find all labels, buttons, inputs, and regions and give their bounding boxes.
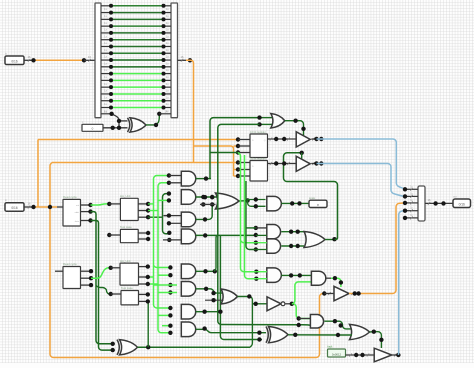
wire B1out2 to v2 [148, 210, 158, 212]
wire IN2 stub [24, 206, 34, 208]
subcircuit HA-Unit B2 [120, 263, 139, 285]
svg-text:Test case: Test case [121, 286, 133, 290]
AND gate AND6 [310, 315, 323, 329]
output pin OUT1 [453, 199, 471, 208]
node comb out [433, 201, 445, 205]
wire reg2 Q out [268, 163, 297, 165]
node C2 in [109, 292, 113, 296]
AND gate AND1 [267, 196, 282, 211]
node A3 inputs [167, 213, 171, 225]
node Gd ins [168, 324, 172, 335]
node reg2 Q [274, 161, 286, 165]
wire A2 out stubs [81, 270, 92, 272]
node A2 inputs [167, 191, 171, 202]
node B1 outs [146, 202, 150, 220]
wire OR3 to AND1 b [248, 200, 266, 206]
wire bright v2 branch a2 [158, 274, 170, 276]
wire C1 out2 [138, 238, 148, 240]
node N1 out [290, 302, 294, 306]
svg-text:16 bit register: 16 bit register [250, 130, 266, 134]
wire pin17 down to XOR [112, 114, 119, 128]
wire down x220 to ORbl2 [220, 235, 262, 339]
wire C1 in stub [109, 234, 120, 236]
wire B2 out3 [139, 283, 148, 285]
wire XOR out [146, 114, 159, 125]
svg-text:fault: fault [328, 345, 333, 349]
wire buf2 out [311, 163, 316, 165]
wire NOT in stub [252, 303, 267, 305]
wire OR1 in stub2 [260, 123, 274, 125]
input pin IN1 [5, 56, 24, 65]
wire fault to bufD [346, 354, 375, 356]
wire B2 out1 [139, 266, 148, 268]
svg-text:Test case: Test case [120, 225, 132, 229]
wire combiner out [425, 202, 453, 204]
wire bright A2in2 [158, 199, 169, 201]
node OR1 ins [257, 115, 261, 126]
node reg2 pins [236, 160, 240, 178]
svg-text:scale: scale [309, 196, 316, 200]
wire buf1 out [311, 138, 316, 140]
node bufC out [353, 291, 361, 295]
wire bright N1 down to AND6 [294, 304, 310, 319]
wire B2 in stub [111, 267, 120, 269]
wire A1 out [196, 178, 211, 180]
wire bufD out [392, 354, 399, 356]
wire stub into boxA1 [57, 206, 63, 208]
wire bright v1 branch a [154, 266, 171, 268]
wire IN1 to splitter [24, 59, 34, 61]
wire OR1 out [285, 121, 304, 137]
wire blue buf1 to pin1 [317, 139, 407, 189]
wire Gc out [196, 311, 221, 313]
tick reg2q [270, 162, 272, 165]
splitter right bar [171, 3, 178, 118]
node IN1 junctions [31, 58, 86, 62]
splitter left bar [95, 3, 101, 118]
wire B1 out2 [138, 210, 148, 212]
wire dark C2 down to line347 [147, 301, 149, 347]
wire ORbl2 out to OR7 [288, 334, 352, 336]
wire A2 out [196, 196, 218, 198]
node C1 outs [146, 231, 150, 241]
wire bright v2 branch c2 [158, 314, 170, 316]
tick fault [349, 354, 351, 357]
node C2 outs [146, 292, 150, 303]
wire reg1 pin stubs [238, 139, 250, 141]
wire AND5 out [326, 277, 331, 279]
node ORbl2 ins [257, 331, 261, 342]
svg-text:Q: Q [264, 140, 266, 142]
wire A4 in2 stub [163, 239, 181, 241]
node B2 outs [146, 264, 150, 286]
AND gate Gc [181, 304, 195, 319]
wire B2 out2 [139, 276, 148, 278]
node reg1 Q [274, 137, 286, 141]
wire dark A1 down left2 [91, 221, 113, 351]
node v4 nodes [297, 316, 301, 327]
node XOR out [154, 112, 162, 128]
node Gb ins [168, 283, 172, 295]
node buf1 out [314, 137, 323, 141]
tri-state buffer BUFC [334, 286, 349, 301]
wire dark A1 down left [91, 212, 113, 344]
node AND1 out [290, 201, 302, 205]
wire bright v2 [158, 183, 170, 333]
svg-text:0/16: 0/16 [459, 202, 465, 206]
node AND4 out [289, 273, 302, 277]
svg-text:Read cycle: Read cycle [63, 262, 77, 266]
wire AND3 in stub1 [256, 242, 267, 244]
wire orange left drop x38 [37, 140, 39, 208]
node splitter out [188, 58, 192, 62]
node A3 out [203, 217, 207, 221]
node B1 in [107, 202, 111, 206]
wire bright v1 branch B2 [148, 276, 153, 278]
wire OR7 out to bufD en [370, 332, 382, 348]
tick bufC in [328, 292, 330, 295]
wire XOR2 out long [138, 346, 251, 348]
wire AND4 in stub2 [256, 278, 267, 280]
node Ga ins [168, 265, 172, 277]
tri-state buffer BUFD [374, 348, 392, 362]
wire orange stub reg1 pin2 [234, 145, 239, 147]
wire bright d in1 [162, 325, 170, 327]
wire OR3 in2 [200, 203, 216, 205]
node AND2 out [289, 230, 300, 234]
node AND6 out [333, 319, 343, 328]
bus width tick 16 [28, 59, 30, 62]
node AND1 ins [254, 197, 258, 208]
node ORbl2 out [293, 333, 340, 338]
node A1 outs [88, 203, 92, 223]
probe scale box [309, 200, 327, 207]
tri-state buffer BUF1 [296, 132, 310, 147]
wire AND6 in1 [299, 318, 311, 320]
wire blue buf2 to pin2 [317, 164, 407, 197]
combiner pin stubs [405, 186, 418, 219]
node Gd out [202, 326, 206, 330]
node A4 inputs [167, 231, 171, 242]
svg-text:16 bit register: 16 bit register [250, 156, 266, 160]
node A1 inputs [167, 173, 171, 185]
node buf2 out [314, 161, 323, 165]
node Gc ins [168, 306, 172, 318]
wire black A3 in2 [168, 222, 169, 224]
wire dark reg1 pin3 feed [210, 152, 238, 154]
wire AND3 in stub2 [256, 249, 267, 251]
tick reg1q [270, 138, 272, 141]
subcircuit Read-cycle A1 [63, 199, 81, 226]
wire orange row139 [38, 139, 238, 141]
node A2 out [203, 195, 215, 199]
wire reg2 pin stub3 [238, 175, 250, 177]
AND gate AND5 [311, 271, 325, 285]
wire into right bar bottom [159, 113, 171, 115]
wire bright AND5 to bufC en [331, 278, 341, 287]
wire orange branch146 [194, 146, 234, 176]
splitter pin labels [104, 7, 169, 113]
wire reg1 pin stub2 [238, 145, 250, 147]
wire Gb out [196, 289, 223, 293]
tick IN2 [28, 206, 30, 209]
node XOR inputs [109, 112, 121, 130]
wire A2 out2 [81, 277, 92, 279]
wire C2 out2 [139, 300, 148, 302]
wire OR4 out [325, 239, 335, 241]
node B2 in [109, 266, 113, 270]
tri-state buffer BUF2 [296, 156, 310, 171]
node A1 out [204, 176, 208, 180]
node AND3 out [289, 244, 300, 248]
node fault out [354, 353, 365, 357]
AND gate Ga [181, 264, 195, 279]
wire orange splitter down [186, 60, 194, 162]
OR gate OR7 [350, 324, 370, 339]
node A4 out [203, 233, 207, 237]
tick comb out [428, 202, 430, 205]
wire Ga out [196, 270, 215, 272]
wire OR5 in2 stub [205, 299, 224, 301]
input pin IN2 [5, 203, 24, 212]
svg-text:0/16: 0/16 [11, 59, 17, 63]
OR gate OR3 [216, 193, 240, 209]
wire bright pairA [238, 153, 256, 272]
wire B1out3 to v3 [148, 216, 162, 218]
AND gate A2 [181, 190, 195, 205]
XOR gate ORbl2 [269, 327, 289, 343]
node OR7 out [372, 330, 384, 342]
wire reg2 pin stubs [238, 162, 250, 164]
node bufD out [396, 353, 400, 357]
wire A1 out3 stub [81, 220, 91, 222]
wire A1 in stub2 [169, 182, 181, 184]
XOR gate U1 [130, 118, 146, 132]
NOT gate N1 [267, 297, 281, 311]
wire A3 out to OR3in2 [196, 204, 214, 219]
node Gc out [202, 310, 222, 314]
subcircuit Read-cycle A2 [63, 267, 81, 289]
wire A1 in stubs [169, 175, 181, 177]
wire blue bufD to pin4 [398, 211, 406, 355]
node reg1 pins [236, 137, 240, 154]
wire AND2 in stub2 [256, 234, 267, 236]
wire OR1 in stub1 [260, 117, 274, 119]
combiner bar [418, 186, 425, 221]
wire A4 out row235 [196, 234, 256, 236]
wire C2 out1 [139, 293, 148, 295]
AND gate A3 [181, 212, 195, 227]
AND gate AND3 [267, 239, 281, 253]
wire OR3 out [239, 200, 248, 202]
splitter wire nodes [109, 4, 166, 110]
wire A1 out1 stub [81, 204, 91, 206]
wire B1 in stub [109, 203, 120, 205]
svg-text:out: out [453, 195, 457, 199]
wire orange tent row162 [52, 162, 238, 164]
wire N1 out [286, 303, 292, 305]
wire bright v1 [154, 176, 171, 309]
wire orange stub reg2 pin2 [234, 169, 239, 171]
register REG1 [250, 134, 268, 158]
OR gate OR1 [271, 114, 285, 129]
wire Gd out [196, 329, 266, 332]
wire Gb in1 [154, 284, 178, 286]
tick right bar [181, 59, 183, 62]
wire reg1 pin stub3 [238, 152, 250, 154]
node OR5 ins [211, 291, 215, 303]
node bufC enable [333, 276, 343, 285]
node XOR2 out [146, 345, 150, 349]
subcircuit Test-case C2 [121, 291, 139, 305]
wire bright pairB [245, 155, 257, 279]
wire XOR in1 stub [119, 120, 128, 122]
AND gate Gd [181, 322, 195, 337]
node A2 outs [89, 269, 93, 287]
constant 0 box [82, 124, 103, 131]
splitter bit wires [101, 6, 171, 108]
wire dark loop OR4 to buf2 en [284, 153, 338, 240]
AND gate Gb [181, 282, 195, 297]
wire dark v3 [163, 194, 171, 234]
wire AND4 out to AND5 [281, 274, 311, 276]
node OR5 out [247, 294, 258, 306]
subcircuit Test-case C1 [120, 229, 138, 242]
wire A1 out2 stub [81, 211, 91, 213]
AND gate A1 [181, 171, 195, 186]
wire orange IN2 row [34, 206, 58, 208]
wire vert x216 Ga up [214, 235, 217, 271]
svg-text:out: out [76, 204, 79, 207]
wire A3 in2 feedb [168, 222, 182, 224]
svg-text:0x0012: 0x0012 [332, 352, 342, 356]
AND gate AND2 [267, 225, 281, 239]
wire dark or1 in1 vert [210, 118, 260, 179]
wire AND2 out [281, 231, 304, 233]
subcircuit HA-Unit B1 [120, 198, 138, 220]
node Gb out [204, 287, 208, 291]
node OR4 out [332, 237, 336, 241]
node bufC in [322, 291, 326, 295]
wire reg2 pin stub2 [238, 169, 250, 171]
wire bright A2 to B2 [91, 268, 111, 278]
wire bright pairA branch row242 [241, 241, 256, 243]
wire AND4 in stub1 [256, 271, 267, 273]
node IN2 [31, 205, 52, 209]
AND gate A4 [181, 229, 195, 244]
OR gate OR5 [221, 289, 238, 304]
wire bright A1 to B1 [91, 204, 110, 205]
wire right bar out stub [178, 59, 187, 61]
wire stub into left splitter [84, 59, 95, 61]
wire A2 out3 [81, 284, 92, 286]
wire Gb in2 [158, 292, 177, 294]
node combiner pins [403, 187, 407, 220]
wire orange stub reg2 pin3 [234, 175, 239, 177]
node Ga out [203, 269, 217, 273]
register REG2 [250, 161, 268, 182]
wire bright v2 branch B2b [148, 283, 158, 285]
wire black A3 in1 [164, 215, 169, 217]
wire B1out1 to v1 [148, 203, 153, 205]
wire AND1 out [281, 202, 309, 204]
svg-text:HA_Unit: HA_Unit [120, 194, 131, 198]
node XOR2 ins [111, 342, 115, 353]
wire bus IN1 orange [34, 59, 85, 61]
output fault box [328, 349, 346, 357]
wire A3 in2 feed [164, 215, 182, 217]
node AND23 ins [254, 226, 258, 252]
wire bufC in stub [324, 293, 334, 295]
wire OR5 out down [238, 297, 253, 348]
wire C1 out1 [138, 232, 148, 234]
wire constant to XOR [103, 127, 128, 129]
wire B1 out1 [138, 203, 148, 205]
wire dark or1 in2 vert [218, 124, 311, 325]
svg-text:HA_Unit: HA_Unit [120, 259, 131, 263]
svg-text:0/16: 0/16 [11, 206, 17, 210]
wire C2 in stub [111, 293, 121, 295]
node buf2 enable [300, 151, 304, 155]
wire orange bufC out to pin3 [349, 203, 406, 294]
node OR3 in [201, 195, 214, 207]
AND gate AND4 [267, 268, 282, 283]
wire left bar pin17 [101, 113, 112, 115]
wire orange big loop [50, 163, 324, 358]
XOR gate XOR2 bottom-left [120, 340, 138, 355]
wire bright N1 up to AND5 [292, 282, 312, 304]
wire OR3 to AND1 a [248, 199, 266, 202]
node AND4 ins [254, 270, 258, 281]
wire dark x246 rows [246, 181, 256, 250]
svg-text:Read cycle: Read cycle [63, 195, 77, 199]
wire B1 out3 [138, 216, 148, 218]
bus width tick 16b [88, 59, 90, 62]
wire AND6 out [324, 321, 351, 329]
wire AND3 out [281, 245, 304, 247]
svg-text:addr: addr [75, 211, 80, 214]
node OR1 out [293, 119, 305, 132]
OR gate OR4 [304, 232, 325, 248]
wire AND2 in stubs [256, 227, 267, 229]
wire A2 in stub [55, 270, 63, 272]
wire dark branch to C2 [96, 286, 111, 295]
wire dark x246 stub227 [246, 227, 256, 229]
node OR3 out [245, 198, 249, 202]
node C1 in [107, 233, 111, 237]
wire reg1 Q out [268, 138, 297, 140]
wire buf2 enable stub [301, 153, 303, 160]
